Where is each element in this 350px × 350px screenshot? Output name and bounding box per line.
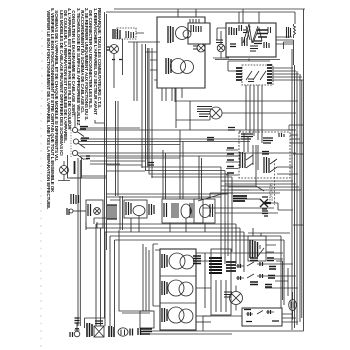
mid ticks <box>149 204 154 215</box>
wire verticals feeding row N <box>163 150 166 199</box>
row2 label <box>162 281 167 295</box>
P2 bottom labels <box>248 79 254 82</box>
bulb ticks top <box>75 318 80 323</box>
wire M3 leads <box>213 31 229 58</box>
terminal E3 label blob <box>86 156 90 159</box>
wire band h 193 <box>210 192 280 194</box>
component X ticks <box>263 202 271 204</box>
wire horizontals right band <box>274 259 288 281</box>
dashed guide left <box>70 122 72 158</box>
nested bus h1 <box>96 224 236 322</box>
wire R1 leads <box>284 40 294 65</box>
ERC right text <box>268 27 271 33</box>
terminal block circle E1 <box>72 127 77 132</box>
connector P2 dashed box <box>242 65 273 85</box>
nested bus right turns <box>236 224 284 308</box>
wire vertical x205 <box>204 253 206 308</box>
contact arms B <box>270 159 277 172</box>
terminal E2 label <box>81 138 89 141</box>
bulb stem <box>76 323 78 331</box>
wire left pair down <box>78 158 80 326</box>
ERC relay arm 2 <box>253 28 262 43</box>
element oval 1 <box>133 206 145 216</box>
resistor R1 top right <box>294 24 296 38</box>
surface motor box <box>86 200 103 228</box>
wire L1 feed upper pair <box>80 127 140 129</box>
wire selector internal <box>253 145 258 170</box>
mid-right bus down 3 <box>227 174 229 256</box>
M8 leads <box>235 286 237 311</box>
wire N feed <box>79 141 250 143</box>
row2 ticks <box>238 274 263 280</box>
right bus line 1 <box>291 49 293 330</box>
wire horizontals mid band <box>106 165 145 171</box>
ERC inner marks <box>264 42 269 48</box>
wire P2 left exits <box>228 61 236 71</box>
center bus v2 <box>146 44 226 171</box>
mid-right bus down 4 <box>231 177 233 252</box>
timer motor M1 <box>176 27 189 40</box>
element 2 coil b <box>190 203 194 218</box>
nested bus h2 <box>101 228 241 322</box>
right lock box <box>211 249 231 315</box>
wire P2 bottom exits <box>246 85 262 143</box>
switch cluster top right rows <box>236 262 265 266</box>
oval inner tick <box>121 330 125 336</box>
wire lamp row bottom <box>70 176 106 178</box>
wire selector right exits <box>290 135 303 143</box>
dark bar component <box>109 326 114 337</box>
fan motor M8 <box>230 292 243 305</box>
wire inner bottom box corner <box>119 230 152 311</box>
nested bus h3 <box>105 232 244 322</box>
row1 label <box>162 254 167 268</box>
wire M4 left <box>176 116 210 120</box>
wire bottom bundle verticals <box>96 315 115 327</box>
lamp L1 leads <box>107 47 110 50</box>
wire selector bottom right <box>277 167 298 174</box>
oven light element bar <box>74 161 76 174</box>
selector switch dashed box <box>239 132 290 178</box>
feed label 2 <box>207 138 214 141</box>
wire band h 187 <box>228 186 299 188</box>
lower switch labels <box>244 310 279 322</box>
selector contacts right top <box>279 133 284 137</box>
wire feed second <box>80 155 240 157</box>
clock/timer box <box>157 17 210 88</box>
lock motor row2 circle pair <box>168 280 184 296</box>
clock motor text <box>166 58 171 74</box>
wire K2 right <box>266 245 276 252</box>
wire K2 top <box>253 228 261 236</box>
terminal block circle E2 <box>73 139 78 144</box>
clock relay box <box>188 23 210 44</box>
contact arms A <box>246 155 253 168</box>
selector contact group A <box>240 152 245 168</box>
element 2 labels <box>164 203 167 217</box>
surface motor M5 <box>94 208 101 215</box>
wire band h 190 <box>232 189 301 191</box>
door lock outer box <box>153 244 158 306</box>
wire L1 feed <box>78 129 293 131</box>
wire bottom border second <box>140 333 232 335</box>
wire ERC bottom parallel <box>215 59 280 61</box>
element box 2 <box>162 199 203 223</box>
wire rows right <box>265 264 298 288</box>
wire h233 <box>248 232 290 234</box>
lamp L3 leads <box>58 161 70 181</box>
clock relay pins <box>191 25 201 32</box>
latch inner divider <box>160 276 196 303</box>
wire P2 top <box>228 59 270 62</box>
wire verticals x180-200 <box>180 130 183 199</box>
lower switch contacts <box>246 311 274 315</box>
wire left border pair <box>105 12 107 318</box>
thermal fuse oval <box>289 300 297 311</box>
mid-right bus down 1 <box>220 167 222 260</box>
terminal E3 arm <box>77 155 88 160</box>
wire to dashed <box>270 203 278 210</box>
wire lamp down <box>114 39 123 88</box>
wire gauge labels right band <box>267 258 274 261</box>
ERC relay arm 1 <box>243 24 258 43</box>
interlock box with X <box>94 326 104 337</box>
labels above K2 <box>262 211 268 216</box>
ERC contact bars <box>257 30 268 37</box>
bottom components group1 ticks <box>70 332 73 337</box>
wire P1 risers <box>134 42 137 101</box>
right lock verticals <box>216 280 226 312</box>
wire row top feeds <box>106 194 228 200</box>
ERC inner text extra <box>250 46 258 51</box>
wire mid right horizontals <box>203 208 274 213</box>
wire corner branch <box>95 120 105 123</box>
row ticks <box>238 262 263 268</box>
ERC lower text <box>242 37 247 46</box>
feed label 3 <box>262 152 269 155</box>
wire stubs off right bus <box>293 154 303 225</box>
label 3 <box>268 276 275 279</box>
wire diagonal to upper right <box>198 193 233 201</box>
wire ERC top stubs <box>239 9 259 23</box>
wire bottom right links <box>282 314 298 322</box>
clock text column <box>168 26 173 43</box>
element 2 oval <box>181 204 191 218</box>
wire riser pair x115 <box>116 101 119 196</box>
dense connector blob right <box>209 258 222 273</box>
wire vertical mid x256 <box>255 145 257 186</box>
wire terminal E1 up <box>74 112 76 127</box>
wire top border inner <box>106 12 295 24</box>
K2 dark interior <box>250 240 258 258</box>
selector top label 2 <box>263 138 273 143</box>
connector P1 dashed box <box>117 28 136 39</box>
ticks after oval <box>130 329 133 336</box>
interlock side ticks <box>95 321 103 324</box>
terminal E1 arm <box>77 132 84 137</box>
surface terminal small <box>69 209 73 213</box>
wire clock bottom stub <box>175 88 182 102</box>
perforation dots <box>40 30 43 347</box>
row2 labels <box>250 282 258 285</box>
connector P1 pin column <box>113 29 120 39</box>
terminal E1 label <box>80 127 88 130</box>
P2 left label column <box>236 68 242 80</box>
wire corners right band <box>283 261 289 300</box>
row labels dark <box>250 258 258 261</box>
K2 contact arm <box>258 245 264 256</box>
element box 1 <box>124 200 147 218</box>
center bus v4 <box>152 48 232 177</box>
element 3 ticks <box>210 204 213 217</box>
wire clock area verticals down <box>162 88 166 101</box>
wire latch top to right <box>196 252 283 254</box>
wire selector feed verticals <box>240 130 248 152</box>
ERC extra ticks row <box>239 25 242 31</box>
ERC left text <box>229 27 237 35</box>
surface row label text <box>71 194 79 204</box>
wire horizontal 218 <box>94 218 106 224</box>
ERC more interior marks <box>246 26 250 40</box>
R2 end caps <box>107 205 117 219</box>
junction dots <box>142 167 152 177</box>
wire ERC left exit <box>217 28 226 40</box>
wire vertical stub x210 <box>209 193 211 199</box>
oven lamp L1 <box>110 45 119 54</box>
row3 label <box>162 308 167 322</box>
nested bus h5 <box>115 240 285 315</box>
wire horizontal y186-190 right <box>221 186 256 190</box>
wire latch to switches <box>196 261 242 316</box>
clock motor M2 pair <box>171 59 186 74</box>
door motor M3 label <box>216 40 223 43</box>
element 1 label <box>126 202 131 215</box>
wire ERC to right bus links <box>293 37 296 44</box>
wire left border bottom <box>85 318 105 328</box>
row1 dark blob <box>193 256 201 264</box>
wire ticks small <box>112 59 122 61</box>
dark junction block <box>233 196 247 201</box>
switch row 2 <box>236 274 265 278</box>
mid-right bus down 2 <box>224 171 226 265</box>
wire bottom out <box>142 330 144 332</box>
wire bottom border <box>143 330 304 332</box>
center bus v3 <box>149 48 228 174</box>
connector P1 inner pins <box>126 31 134 38</box>
buzzer label <box>193 46 198 49</box>
label 2 <box>269 267 276 270</box>
selector left stub labels <box>227 148 234 173</box>
wire band h 181 <box>221 180 293 182</box>
wire N feed pair <box>80 139 244 145</box>
selector left stubs <box>226 150 238 175</box>
ticks 2 <box>138 328 141 335</box>
pilot lamp L3 <box>60 166 69 175</box>
wire surface left <box>73 210 86 212</box>
wire mid horizontals <box>90 161 145 164</box>
terminal E2 arm <box>78 143 85 148</box>
wire bottom mid horizontals <box>153 250 160 306</box>
wire pair at 120 <box>120 196 123 230</box>
wire inner bottom second <box>122 312 150 314</box>
label under box <box>141 329 152 334</box>
wire row N bottom connects <box>86 216 205 233</box>
wire clock stubs to border <box>178 9 196 17</box>
element box 3 <box>194 199 215 223</box>
clock ticks top <box>190 19 199 23</box>
wire clock left stubs <box>145 52 157 80</box>
lock motor row1 circle pair <box>169 253 185 269</box>
feed wire labels mid <box>228 128 235 131</box>
door motor M3 <box>217 44 225 52</box>
dashed sensor line <box>274 160 276 205</box>
oven light box <box>68 155 82 178</box>
buzzer B1 <box>197 44 205 52</box>
notes: French wiring remarks, rotated 90deg <box>46 8 101 206</box>
selector top label 1 <box>241 134 253 139</box>
small box bottom left <box>140 311 154 328</box>
bulb L5 <box>74 331 80 337</box>
P2 switch arms <box>246 71 266 80</box>
oven sensor box top <box>176 101 298 128</box>
surface terminal ticks <box>67 208 69 215</box>
blob2 <box>226 262 236 271</box>
dense connector pins <box>87 323 92 337</box>
M5 label <box>88 204 91 216</box>
door switch oval <box>118 328 128 336</box>
wire x190 vertical <box>189 101 191 130</box>
wire lower box left <box>203 316 211 331</box>
element 3 oval <box>200 205 211 218</box>
nested bus h4 <box>110 236 281 318</box>
selector contact group B <box>264 157 269 173</box>
wire right mid connects <box>260 210 293 213</box>
wire junction right <box>247 198 260 200</box>
bundle extra line <box>147 48 149 167</box>
wire right top corner boxlet <box>289 125 303 130</box>
M8 label <box>224 292 232 297</box>
wire P2 right exits <box>272 68 303 80</box>
lock motor row3 circle pair <box>168 307 184 323</box>
P2 right label column <box>267 65 272 83</box>
wire L2 feed <box>78 152 296 154</box>
lower switch box <box>242 308 282 326</box>
fuse leads <box>292 292 294 320</box>
terminal block circle E3 <box>72 150 77 155</box>
element 2 coil <box>172 203 178 218</box>
wire P1 to right <box>128 33 160 42</box>
lower switch ticks <box>248 310 271 316</box>
wire left of latch <box>143 244 149 311</box>
M4 label lines <box>197 107 212 117</box>
right bus line 5 <box>301 80 303 318</box>
wire diag small <box>256 186 264 191</box>
relay K2 box <box>248 236 266 261</box>
wire band h 184 <box>225 183 296 185</box>
wire right border inner stub <box>0 0 1 1</box>
ERC control box U1 <box>226 23 276 57</box>
wire verticals at 199 <box>199 156 202 199</box>
right bus line 3 <box>296 71 298 325</box>
feed label 4 <box>148 163 154 166</box>
wire latch bottom right <box>196 321 211 323</box>
label 4 <box>265 285 272 288</box>
dark component X <box>260 197 268 209</box>
heater coil R2 <box>108 205 116 219</box>
resistor R1 label ticks <box>287 27 291 38</box>
wire clock bottom verticals <box>172 88 176 101</box>
wire M4 right to bus <box>222 112 296 114</box>
svg-text:23YD OH: 23YD OH <box>269 183 274 201</box>
latch box <box>160 249 196 330</box>
right bus line 4 <box>299 74 301 322</box>
convection motor M4 <box>210 107 222 119</box>
wire ERC right exits <box>276 37 294 44</box>
wire long horizontal y153 second <box>106 157 180 159</box>
fuse inner ticks <box>291 302 294 309</box>
right bus line 2 <box>294 65 296 328</box>
wire right border outer <box>303 9 305 331</box>
wire top border outer <box>114 8 305 10</box>
center bus v1 <box>142 44 221 167</box>
